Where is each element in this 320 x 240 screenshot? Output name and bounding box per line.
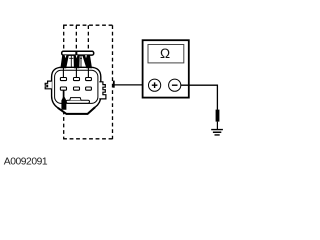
component boundary dashed box bottom edge — [63, 138, 112, 140]
component boundary dashed box left edge lower — [63, 111, 65, 139]
wire C internal dashed lead — [87, 25, 89, 51]
positive terminal — [149, 79, 161, 91]
ground lead — [216, 122, 218, 129]
connector C1 body outer shell — [52, 67, 101, 114]
component boundary dashed box right edge — [112, 25, 114, 139]
wire seal 2 — [74, 55, 80, 68]
pin 6 — [86, 87, 92, 90]
right latch tab — [99, 82, 106, 99]
pin 3 — [86, 78, 92, 81]
terminal tick — [113, 81, 115, 88]
lead to pin 1 — [62, 66, 64, 78]
wire stub through cap — [75, 51, 77, 55]
wire seal 1 — [60, 55, 69, 68]
connector C1 body inner shell — [55, 70, 98, 103]
lead to pin 2 — [75, 66, 77, 78]
pin 4 — [60, 87, 66, 90]
pin 1 — [60, 78, 66, 81]
test probe at pin 4 — [61, 96, 66, 110]
connector C1 rear cap — [62, 51, 94, 55]
connector C1 bottom chin thick edge — [58, 107, 95, 114]
lead to pin 3 — [87, 66, 89, 78]
lead from pin 4 — [63, 90, 65, 98]
wire seal 3 — [82, 55, 92, 68]
pin 5 — [74, 87, 80, 90]
ground symbol — [211, 130, 223, 135]
rear step lines — [69, 55, 82, 67]
ohmmeter body — [143, 40, 189, 97]
svg-text:Ω: Ω — [160, 46, 170, 61]
wire connector to meter — [114, 84, 149, 86]
keyway slot — [66, 100, 89, 103]
left latch tab — [45, 81, 52, 89]
component boundary dashed box top edge — [63, 24, 112, 26]
wire meter to ground — [181, 85, 218, 110]
svg-text:A0092091: A0092091 — [4, 157, 48, 168]
pin 2 — [74, 78, 80, 81]
ohmmeter display — [148, 45, 184, 63]
negative terminal — [169, 79, 181, 91]
keyway bump — [70, 98, 81, 101]
ground probe — [216, 110, 220, 122]
wire B internal dashed lead — [75, 25, 77, 51]
component boundary dashed box left edge upper — [63, 25, 65, 52]
